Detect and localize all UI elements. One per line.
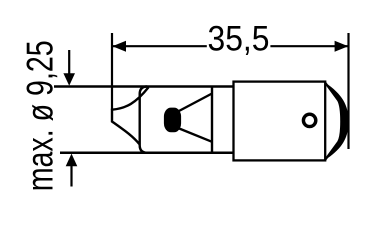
bayonet pin (circle on base) (303, 114, 315, 126)
dimension line 35,5 left segment (113, 45, 207, 47)
lead wire bottom (178, 128, 212, 142)
arrowhead right of 35,5 dimension (335, 41, 349, 52)
glass envelope bottom edge with extension line (60, 151, 235, 154)
svg-text:35,5: 35,5 (208, 20, 270, 59)
glass envelope top edge with extension line (54, 85, 235, 88)
arrowhead left of 35,5 dimension (112, 41, 126, 52)
glass envelope left end (rounded) (140, 87, 148, 153)
diameter arrow bottom (pointing up) (70, 166, 72, 187)
diameter arrow top (pointing down) (68, 50, 70, 75)
extension line left (glass tip, 35,5 dimension) (111, 33, 113, 110)
base shell (metal cylinder) (234, 82, 326, 161)
lead wire top (178, 94, 212, 112)
pinch seal line inside glass (211, 87, 213, 153)
svg-text:max. ø 9,25: max. ø 9,25 (20, 40, 61, 191)
dimension line 35,5 right segment (270, 45, 347, 47)
contact cap crescent (solder contact) (325, 83, 348, 160)
filament (black coil) (164, 108, 181, 133)
contact cap inner outline (chamfer) (325, 83, 341, 160)
exhaust tip (trumpet shaped) (112, 87, 149, 144)
extension line right (contact tip, 35,5 dimension) (347, 33, 349, 149)
